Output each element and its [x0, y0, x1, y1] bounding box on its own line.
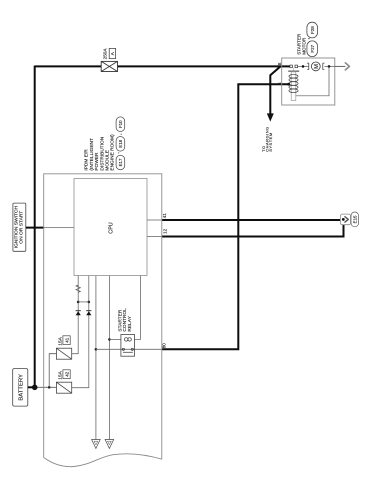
ignition switch box: [13, 203, 26, 251]
connector E18: [116, 134, 125, 151]
svg-text:MODULE: MODULE: [105, 150, 111, 171]
wire: battery feed left vertical: [34, 66, 36, 388]
svg-text:SYSTEM: SYSTEM: [268, 132, 273, 151]
contact square 1: [290, 65, 293, 68]
starter motor box: [282, 58, 335, 105]
svg-text:BATTERY: BATTERY: [18, 374, 24, 401]
svg-text:15A: 15A: [58, 370, 63, 379]
connector E17: [116, 152, 125, 169]
fuse 41 15A: [56, 336, 71, 359]
wire: battery cable continues (gray chevron arrow): [335, 65, 346, 67]
wire: relay switch row: [96, 348, 162, 350]
svg-text:ENGINE ROOM): ENGINE ROOM): [110, 134, 116, 171]
wire: CPU 41 internal: [147, 219, 162, 221]
wire: CPU 41 to E15: [162, 219, 341, 221]
svg-text:RELAY: RELAY: [127, 315, 133, 331]
svg-text:S: S: [277, 82, 282, 85]
junction: relay coil tap: [108, 338, 111, 341]
junction: diode bridge left: [77, 301, 80, 304]
label: STARTER MOTOR: [297, 33, 307, 55]
wire: fuse 41 output to CPU: [72, 276, 79, 354]
diode D2: [86, 310, 91, 312]
svg-text:E15: E15: [353, 215, 358, 223]
junction: solenoid return: [328, 65, 331, 68]
junction: relay switch tap: [95, 348, 98, 351]
wire: contact to motor: [298, 65, 309, 67]
svg-text:B: B: [277, 62, 282, 65]
wire: CPU ground line 1: [95, 276, 97, 440]
label: IPDM E/R header: [84, 134, 116, 171]
svg-text:ON OR START: ON OR START: [19, 211, 25, 244]
svg-text:DISTRIBUTION: DISTRIBUTION: [99, 136, 105, 170]
connector F27: [307, 38, 318, 57]
wire: CPU 12 to E15: [162, 225, 344, 237]
wire: battery feed top horizontal: [35, 65, 290, 67]
svg-text:IGNITION SWITCH: IGNITION SWITCH: [13, 206, 19, 249]
wire: battery to fuses: [28, 386, 35, 388]
wire: bridge between diode lines: [78, 301, 89, 303]
svg-text:12: 12: [162, 228, 167, 234]
svg-text:POWER: POWER: [94, 152, 100, 171]
junction: S terminal: [287, 83, 290, 86]
wire: motor output: [324, 65, 334, 67]
label: STARTER CONTROL RELAY: [117, 308, 133, 332]
svg-text:MOTOR: MOTOR: [301, 37, 306, 55]
svg-text:E18: E18: [118, 139, 123, 147]
svg-text:A: A: [110, 52, 115, 55]
CPU box: [74, 179, 147, 276]
starter control relay: [121, 335, 135, 357]
ground G1: [92, 440, 101, 449]
motor M: [307, 62, 324, 71]
svg-text:IPDM E/R: IPDM E/R: [84, 149, 90, 171]
contact square 2: [295, 65, 298, 68]
wire: coil to motor output: [296, 66, 329, 95]
svg-text:F10: F10: [118, 120, 123, 128]
svg-text:41: 41: [162, 213, 167, 219]
diode D1: [76, 310, 81, 312]
solenoid core: [291, 72, 296, 101]
wire: to charging system branch: [270, 66, 280, 113]
resistor (zigzag on fuse41 line): [76, 285, 80, 292]
solenoid plunger bar: [288, 70, 299, 72]
svg-text:M: M: [314, 64, 320, 69]
connector F28: [307, 22, 318, 38]
junction: fuse 41 tap: [48, 386, 51, 389]
wire: CPU 12 internal: [147, 236, 162, 238]
wire: relay coil right riser to CPU: [135, 276, 141, 340]
IPDM E/R box with torn bottom: [44, 174, 162, 467]
wire: starter S feed: [162, 84, 289, 349]
svg-text:250A: 250A: [103, 48, 108, 60]
svg-text:CPU: CPU: [109, 222, 115, 233]
svg-text:41: 41: [65, 337, 70, 343]
solenoid coil: [289, 74, 298, 92]
svg-text:(INTELLIGENT: (INTELLIGENT: [89, 138, 95, 171]
fusible link A 250A: [101, 48, 117, 72]
wire: relay coil left: [109, 338, 121, 340]
wire: CPU ground line 2: [108, 276, 110, 440]
ground G2: [105, 440, 114, 449]
wire: fuse 42 output to CPU: [72, 276, 89, 388]
label: TO CHARGING SYSTEM: [261, 126, 273, 152]
junction: battery node: [32, 385, 38, 391]
junction: motor input: [302, 65, 305, 68]
wire: riser to fuse 41: [49, 354, 56, 388]
wire: ignition to IPDM: [26, 227, 44, 229]
svg-text:F28: F28: [310, 26, 315, 34]
connector label E15: [351, 212, 359, 227]
junction: diode bridge right: [88, 301, 91, 304]
fuse 42 15A: [56, 370, 71, 393]
battery box: [13, 369, 28, 407]
svg-text:15A: 15A: [58, 336, 63, 345]
svg-text:E17: E17: [118, 158, 123, 166]
connector F10: [116, 117, 125, 132]
svg-text:F27: F27: [310, 44, 315, 52]
connector E15 (pass-through): [340, 214, 350, 225]
svg-text:42: 42: [65, 371, 70, 377]
